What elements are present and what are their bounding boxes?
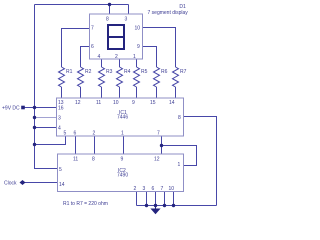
svg-text:9: 9: [132, 100, 135, 106]
svg-text:12: 12: [75, 100, 81, 106]
svg-text:12: 12: [154, 157, 160, 163]
7-segment digit: [108, 25, 124, 49]
wire display pin4 to R3: [101, 59, 103, 67]
svg-text:6: 6: [91, 44, 94, 50]
svg-text:5: 5: [64, 131, 67, 137]
wire R7 bottom to IC1 pin14: [175, 87, 177, 98]
wire +9V feed to IC1 pin16: [23, 107, 57, 109]
wire IC2 pin7 drop: [164, 192, 166, 206]
svg-text:1: 1: [121, 131, 124, 137]
ground: [152, 206, 160, 214]
svg-text:14: 14: [169, 100, 175, 106]
svg-text:7: 7: [161, 186, 164, 192]
wire IC2 pin3 drop: [146, 192, 148, 206]
wire left rail to IC1 pin4: [35, 127, 58, 129]
svg-text:6: 6: [74, 131, 77, 137]
wire IC1 pin7 to IC2 pin12: [161, 136, 163, 154]
wire R5 bottom to IC1 pin9: [136, 87, 138, 98]
wire display pin8 drop: [109, 5, 111, 15]
node +9V rail pin5: [33, 143, 36, 146]
svg-text:3: 3: [143, 186, 146, 192]
svg-text:15: 15: [150, 100, 156, 106]
svg-text:10: 10: [169, 186, 175, 192]
wire display pin3 drop: [128, 5, 130, 15]
wire R2 bottom to IC1 pin12: [80, 87, 82, 98]
svg-text:10: 10: [135, 26, 141, 32]
svg-text:2: 2: [93, 131, 96, 137]
svg-text:Clock: Clock: [4, 181, 17, 187]
node display anode junction: [108, 3, 111, 6]
wire left rail to IC1 pin5: [35, 136, 66, 145]
svg-text:R1 to R7 = 220 ohm: R1 to R7 = 220 ohm: [63, 201, 108, 207]
svg-text:8: 8: [178, 115, 181, 121]
wire R1 bottom to IC1 pin13: [61, 87, 63, 98]
svg-text:4: 4: [98, 54, 101, 60]
svg-text:7: 7: [157, 131, 160, 137]
node +9V rail pin16: [33, 106, 36, 109]
svg-text:7: 7: [91, 26, 94, 32]
IC1 7446 box: [57, 98, 184, 136]
wire IC1 pin6 to IC2 pin11: [75, 136, 77, 154]
svg-text:R5: R5: [141, 69, 148, 75]
wire IC1 pin1 to IC2 pin9: [123, 136, 125, 154]
svg-text:7490: 7490: [117, 173, 128, 179]
svg-text:5: 5: [59, 167, 62, 173]
svg-text:10: 10: [113, 100, 119, 106]
svg-text:3: 3: [125, 17, 128, 23]
node bus pin3: [145, 204, 148, 207]
svg-text:2: 2: [115, 54, 118, 60]
wire left rail to IC1 pin3: [35, 117, 58, 119]
svg-text:R4: R4: [124, 69, 131, 75]
svg-text:1: 1: [178, 162, 181, 168]
svg-text:7 segment display: 7 segment display: [148, 10, 189, 16]
clock input terminal: [20, 180, 26, 185]
wire display pin10 to R7: [143, 28, 176, 68]
node bus pin6: [154, 204, 157, 207]
wire R6 bottom to IC1 pin15: [156, 87, 158, 98]
svg-text:R2: R2: [85, 69, 92, 75]
node QA junction: [160, 144, 163, 147]
svg-text:6: 6: [152, 186, 155, 192]
svg-text:7446: 7446: [117, 115, 128, 121]
wire display pin2 to R4: [119, 59, 121, 67]
svg-text:1: 1: [133, 54, 136, 60]
resistor R4: [117, 67, 123, 87]
svg-text:3: 3: [58, 116, 61, 122]
wire clock input to IC2 pin14: [24, 182, 57, 184]
node +9V rail pin3: [33, 116, 36, 119]
svg-text:8: 8: [106, 17, 109, 23]
svg-text:9: 9: [137, 44, 140, 50]
wire IC2 pin2 drop: [136, 192, 138, 206]
wire R4 bottom to IC1 pin10: [119, 87, 121, 98]
wire display pin7 to R1: [62, 29, 90, 68]
svg-text:2: 2: [134, 186, 137, 192]
wire QA branch to IC2 pin1: [162, 146, 197, 166]
svg-text:R1: R1: [66, 69, 73, 75]
wire IC2 pin6 drop: [155, 192, 157, 206]
svg-text:R6: R6: [161, 69, 168, 75]
7-segment display D1 box: [90, 14, 143, 59]
wire display pin6 to R2: [81, 47, 90, 68]
svg-text:16: 16: [58, 106, 64, 112]
IC2 7490 box: [58, 154, 184, 192]
svg-text:R3: R3: [106, 69, 113, 75]
wire R3 bottom to IC1 pin11: [101, 87, 103, 98]
wire IC2 pin10 drop: [173, 192, 175, 206]
svg-text:4: 4: [58, 126, 61, 132]
resistor R1: [59, 67, 65, 87]
svg-text:+9V DC: +9V DC: [2, 106, 20, 112]
svg-text:14: 14: [59, 182, 65, 188]
resistor R3: [99, 67, 105, 87]
wire ground bus: [137, 205, 217, 207]
wire +9V top rail: [35, 4, 129, 6]
resistor R6: [154, 67, 160, 87]
wire display pin9 to R6: [143, 47, 157, 68]
svg-text:11: 11: [96, 100, 101, 106]
resistor R5: [134, 67, 140, 87]
svg-text:R7: R7: [180, 69, 187, 75]
+9VDC source terminal: [21, 106, 25, 110]
node bus pin7: [163, 204, 166, 207]
svg-text:8: 8: [92, 157, 95, 163]
node bus pin10: [172, 204, 175, 207]
svg-text:9: 9: [121, 157, 124, 163]
node +9V rail pin4: [33, 126, 36, 129]
resistor R7: [173, 67, 179, 87]
wire left +9V rail: [35, 5, 58, 169]
resistor R2: [78, 67, 84, 87]
wire display pin1 to R5: [136, 59, 138, 67]
wire IC1 pin2 to IC2 pin8: [94, 136, 96, 154]
wire IC1 pin8 to right rail to ground bus: [184, 117, 217, 206]
svg-text:11: 11: [73, 157, 78, 163]
